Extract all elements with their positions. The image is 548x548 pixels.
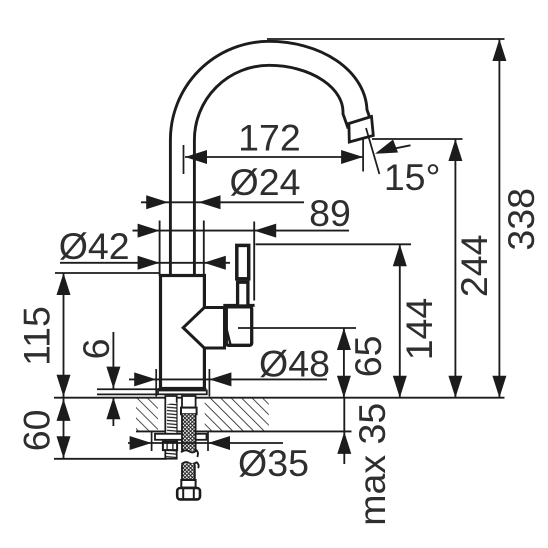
65 reference line [238,327,356,329]
countertop hatch left block [136,399,158,431]
ext line diam48 left [155,369,157,397]
spout gooseneck tube [182,53,359,279]
svg-text:Ø48: Ø48 [259,343,330,385]
svg-text:144: 144 [398,298,440,361]
dim 6 [106,332,120,426]
dim diam42 [60,256,230,270]
ext line diam35 right [207,432,209,451]
ext line diam42 left [159,221,161,277]
lever upper segment [237,245,249,278]
base gasket [158,391,207,395]
dim 115 [57,273,71,398]
aerator end piece [349,117,373,143]
dim 172 [185,150,363,164]
mounting nut [163,442,177,451]
base flange bottom edge [158,388,207,391]
ext line diam35 left [151,432,153,451]
dim diam48 [129,372,327,386]
spout tip centerline tick [366,128,379,174]
lever lower segment [238,282,248,306]
spout tip vertical extension [362,137,364,172]
dim 89 [133,224,350,238]
svg-text:115: 115 [16,306,58,366]
dim diam35 [128,436,283,450]
ext line 89 right [253,222,255,301]
top reference line [267,38,505,40]
valve pentagon [183,308,224,349]
hose end nut [177,488,200,499]
svg-text:15°: 15° [384,156,441,198]
ext line diam48 right [208,369,210,397]
faucet body [161,276,205,389]
svg-text:65: 65 [347,336,389,378]
svg-text:max 35: max 35 [351,403,393,526]
countertop top line [54,397,505,399]
60 bottom reference line [54,458,167,460]
svg-text:244: 244 [453,235,495,298]
mounting washer plate [155,434,207,440]
countertop hatch right block [205,399,269,431]
handle housing top edge [223,304,254,307]
svg-text:60: 60 [16,410,58,452]
supply hose neck [182,396,196,408]
svg-text:172: 172 [238,117,301,159]
ext line diam42 right [203,221,205,277]
body centerline tick [183,145,185,174]
handle housing [226,307,251,346]
dim 244 [448,139,462,398]
dim max35 [337,398,351,464]
hose break curves [181,450,197,452]
hose braid upper [182,414,196,451]
hose ferrule [181,480,195,488]
svg-text:Ø24: Ø24 [230,161,301,203]
dim 60 [57,399,71,459]
svg-text:338: 338 [500,188,542,251]
dim diam24 [141,195,304,209]
hose collar [181,408,197,415]
threaded stud [165,396,176,459]
144 reference line [256,243,412,245]
dim 144 [393,244,407,397]
svg-text:89: 89 [309,192,351,234]
svg-text:Ø35: Ø35 [238,442,309,484]
6 reference gasket line [97,393,158,395]
6 reference flange line [97,388,158,390]
hose braid lower [182,464,195,481]
leader 15deg [375,139,411,153]
countertop bottom line [136,430,352,432]
housing interior diagonal [227,329,231,346]
115 top reference line [55,272,159,274]
svg-text:6: 6 [75,338,117,359]
dim 65 [337,328,351,398]
spout height reference line [372,138,463,140]
dim 338 [492,39,506,398]
svg-text:Ø42: Ø42 [59,225,130,267]
